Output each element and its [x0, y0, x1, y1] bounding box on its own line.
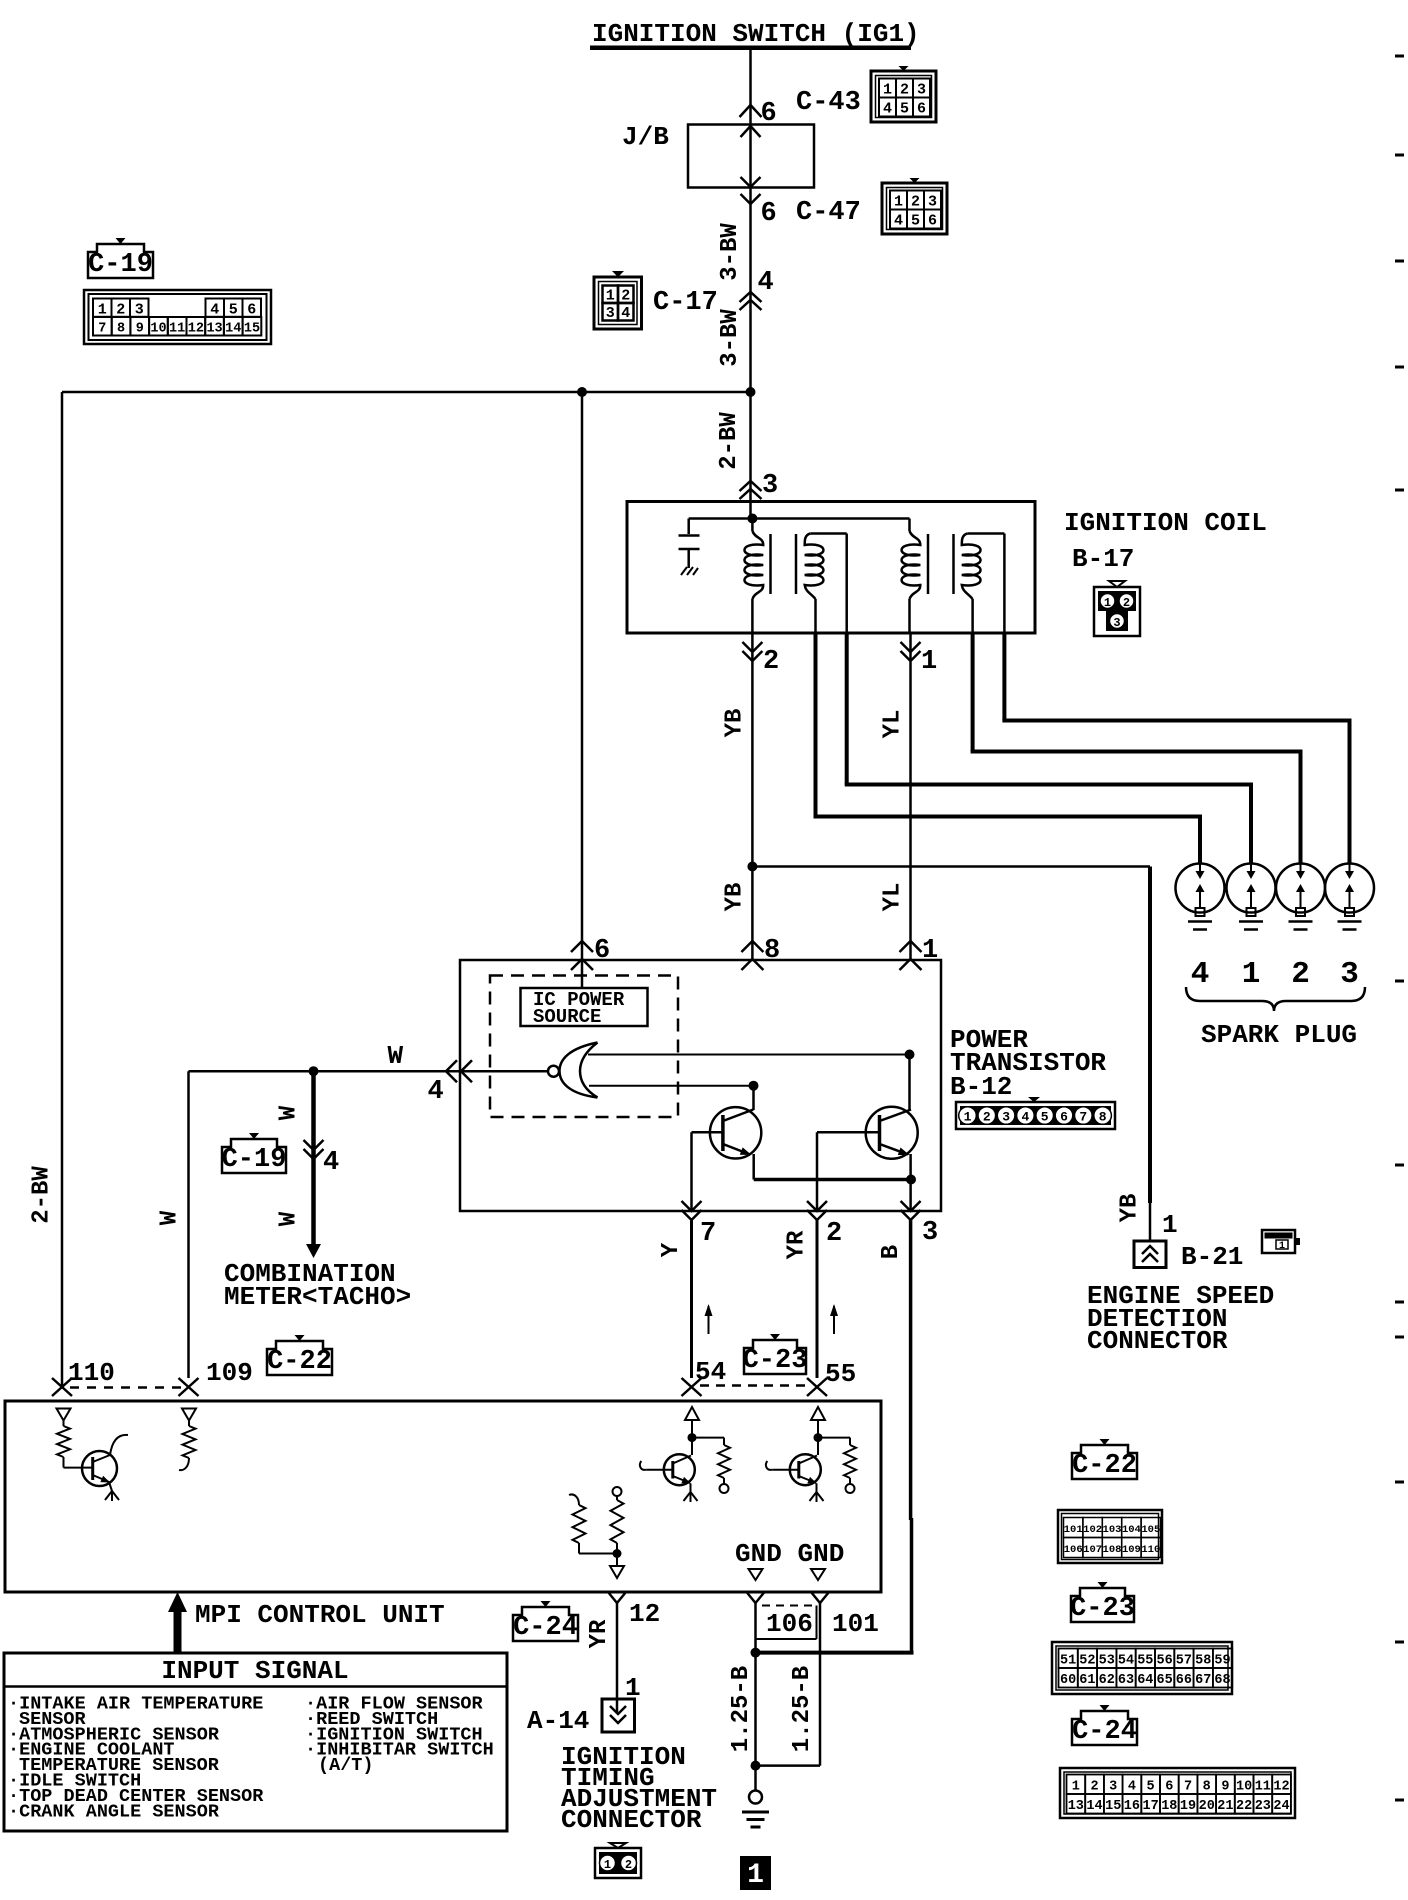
svg-text:5: 5 [229, 302, 238, 319]
svg-text:C-23: C-23 [743, 1346, 808, 1376]
svg-text:53: 53 [1099, 1654, 1115, 1669]
svg-text:14: 14 [1086, 1799, 1102, 1814]
svg-text:105: 105 [1141, 1524, 1160, 1536]
svg-text:52: 52 [1079, 1654, 1095, 1669]
svg-text:4: 4 [210, 302, 219, 319]
svg-text:C-47: C-47 [796, 198, 861, 228]
svg-text:W: W [388, 1041, 404, 1071]
svg-text:1: 1 [1162, 1210, 1178, 1240]
svg-text:7: 7 [1184, 1780, 1192, 1795]
svg-text:6: 6 [1060, 1110, 1068, 1125]
svg-text:62: 62 [1099, 1673, 1115, 1688]
svg-text:2: 2 [625, 1858, 632, 1872]
svg-text:3-BW: 3-BW [717, 309, 744, 367]
svg-text:1: 1 [883, 82, 892, 99]
svg-text:4: 4 [323, 1148, 339, 1178]
svg-text:1: 1 [98, 302, 107, 319]
svg-text:2: 2 [116, 302, 125, 319]
svg-text:6: 6 [917, 101, 926, 118]
svg-text:106: 106 [766, 1609, 813, 1639]
svg-text:C-23: C-23 [1070, 1594, 1135, 1624]
svg-text:109: 109 [1122, 1544, 1141, 1556]
svg-text:103: 103 [1103, 1524, 1122, 1536]
svg-text:64: 64 [1137, 1673, 1153, 1688]
svg-text:1: 1 [1072, 1780, 1080, 1795]
svg-text:MPI CONTROL UNIT: MPI CONTROL UNIT [195, 1600, 445, 1630]
svg-text:8: 8 [1203, 1780, 1211, 1795]
svg-text:61: 61 [1079, 1673, 1095, 1688]
svg-text:66: 66 [1176, 1673, 1192, 1688]
svg-text:23: 23 [1255, 1799, 1271, 1814]
svg-text:6: 6 [928, 213, 937, 230]
svg-text:15: 15 [244, 322, 260, 337]
svg-text:10: 10 [150, 322, 166, 337]
svg-text:3: 3 [917, 82, 926, 99]
svg-text:1: 1 [1104, 596, 1111, 610]
svg-text:7: 7 [98, 322, 106, 337]
svg-text:63: 63 [1118, 1673, 1134, 1688]
svg-text:6: 6 [247, 302, 256, 319]
svg-text:INPUT SIGNAL: INPUT SIGNAL [161, 1656, 348, 1686]
svg-text:55: 55 [1137, 1654, 1153, 1669]
svg-text:1: 1 [604, 1858, 611, 1872]
svg-text:1.25-B: 1.25-B [728, 1666, 755, 1752]
svg-text:B-17: B-17 [1072, 544, 1134, 574]
svg-text:11: 11 [169, 322, 185, 337]
svg-text:5: 5 [911, 213, 920, 230]
svg-text:4: 4 [883, 101, 892, 118]
svg-text:2: 2 [763, 647, 779, 677]
svg-text:C-22: C-22 [1072, 1451, 1137, 1481]
svg-text:METER<TACHO>: METER<TACHO> [224, 1282, 411, 1312]
svg-text:58: 58 [1195, 1654, 1211, 1669]
svg-text:C-19: C-19 [222, 1145, 287, 1175]
svg-text:Y: Y [658, 1242, 685, 1257]
svg-text:15: 15 [1105, 1799, 1121, 1814]
svg-text:109: 109 [206, 1358, 253, 1388]
svg-text:SPARK PLUG: SPARK PLUG [1201, 1020, 1357, 1050]
svg-text:W: W [276, 1105, 303, 1120]
svg-text:6: 6 [594, 936, 610, 966]
svg-text:110: 110 [1141, 1544, 1160, 1556]
svg-text:4: 4 [1191, 957, 1210, 992]
svg-text:3: 3 [1109, 1780, 1117, 1795]
svg-text:3: 3 [1340, 957, 1359, 992]
svg-text:4: 4 [1128, 1780, 1136, 1795]
svg-text:YL: YL [880, 710, 907, 739]
svg-text:B-12: B-12 [950, 1072, 1012, 1102]
svg-text:GND: GND [798, 1539, 845, 1569]
svg-text:6: 6 [1165, 1780, 1173, 1795]
svg-text:68: 68 [1214, 1673, 1230, 1688]
svg-text:YR: YR [784, 1230, 811, 1259]
svg-text:6: 6 [761, 199, 777, 229]
svg-text:C-19: C-19 [88, 250, 153, 280]
svg-text:55: 55 [825, 1359, 856, 1389]
svg-text:108: 108 [1103, 1544, 1122, 1556]
svg-text:17: 17 [1142, 1799, 1158, 1814]
svg-text:8: 8 [764, 936, 780, 966]
svg-text:21: 21 [1217, 1799, 1233, 1814]
svg-text:59: 59 [1214, 1654, 1230, 1669]
svg-text:C-17: C-17 [653, 288, 718, 318]
svg-text:2: 2 [900, 82, 909, 99]
svg-text:3: 3 [928, 194, 937, 211]
svg-text:56: 56 [1156, 1654, 1172, 1669]
svg-text:104: 104 [1122, 1524, 1141, 1536]
svg-text:1: 1 [964, 1110, 972, 1125]
svg-text:65: 65 [1156, 1673, 1172, 1688]
svg-text:IGNITION COIL: IGNITION COIL [1064, 508, 1267, 538]
svg-text:2-BW: 2-BW [29, 1166, 56, 1224]
svg-text:CONNECTOR: CONNECTOR [561, 1805, 702, 1835]
svg-text:1: 1 [921, 647, 937, 677]
svg-text:8: 8 [117, 322, 125, 337]
svg-text:IGNITION SWITCH (IG1): IGNITION SWITCH (IG1) [592, 19, 920, 49]
svg-text:8: 8 [1099, 1110, 1107, 1125]
svg-text:12: 12 [188, 322, 204, 337]
svg-text:54: 54 [695, 1357, 726, 1387]
svg-text:12: 12 [629, 1599, 660, 1629]
svg-text:3: 3 [135, 302, 144, 319]
svg-text:9: 9 [136, 322, 144, 337]
svg-text:10: 10 [1236, 1780, 1252, 1795]
svg-text:SOURCE: SOURCE [533, 1006, 601, 1028]
svg-text:YB: YB [722, 883, 749, 912]
svg-text:5: 5 [1147, 1780, 1155, 1795]
svg-text:106: 106 [1064, 1544, 1083, 1556]
svg-text:101: 101 [1064, 1524, 1083, 1536]
svg-text:13: 13 [206, 322, 222, 337]
svg-text:2: 2 [826, 1219, 842, 1249]
svg-text:3: 3 [606, 305, 615, 322]
svg-text:107: 107 [1083, 1544, 1102, 1556]
svg-text:2: 2 [983, 1110, 991, 1125]
svg-text:CONNECTOR: CONNECTOR [1087, 1326, 1228, 1356]
svg-text:4: 4 [1021, 1110, 1029, 1125]
svg-text:2: 2 [1123, 596, 1130, 610]
svg-text:102: 102 [1083, 1524, 1102, 1536]
svg-text:18: 18 [1161, 1799, 1177, 1814]
svg-text:J/B: J/B [622, 122, 669, 152]
svg-text:C-24: C-24 [513, 1613, 578, 1643]
svg-text:YL: YL [880, 883, 907, 912]
svg-text:4: 4 [621, 305, 630, 322]
svg-text:67: 67 [1195, 1673, 1211, 1688]
svg-text:14: 14 [225, 322, 241, 337]
svg-text:C-22: C-22 [267, 1347, 332, 1377]
svg-text:4: 4 [758, 268, 774, 298]
svg-text:(A/T): (A/T) [318, 1755, 374, 1776]
svg-text:1: 1 [894, 194, 903, 211]
svg-text:13: 13 [1068, 1799, 1084, 1814]
svg-text:C-24: C-24 [1072, 1717, 1137, 1747]
svg-text:YB: YB [722, 709, 749, 738]
svg-text:51: 51 [1060, 1654, 1076, 1669]
svg-text:3: 3 [762, 471, 778, 501]
svg-text:20: 20 [1199, 1799, 1215, 1814]
svg-text:3: 3 [1002, 1110, 1010, 1125]
svg-text:22: 22 [1236, 1799, 1252, 1814]
svg-text:1: 1 [922, 936, 938, 966]
svg-text:C-43: C-43 [796, 88, 861, 118]
svg-text:A-14: A-14 [527, 1706, 589, 1736]
svg-text:9: 9 [1221, 1780, 1229, 1795]
svg-text:2: 2 [911, 194, 920, 211]
svg-text:2: 2 [1291, 957, 1310, 992]
svg-text:W: W [276, 1211, 303, 1226]
svg-text:3: 3 [1113, 616, 1120, 630]
svg-text:GND: GND [735, 1539, 782, 1569]
svg-text:7: 7 [1079, 1110, 1087, 1125]
svg-text:16: 16 [1124, 1799, 1140, 1814]
svg-text:4: 4 [894, 213, 903, 230]
svg-text:3: 3 [922, 1218, 938, 1248]
svg-text:60: 60 [1060, 1673, 1076, 1688]
svg-text:2: 2 [1090, 1780, 1098, 1795]
svg-text:54: 54 [1118, 1654, 1134, 1669]
svg-text:B: B [878, 1245, 905, 1259]
svg-text:YR: YR [586, 1619, 613, 1648]
svg-text:11: 11 [1255, 1780, 1271, 1795]
svg-text:5: 5 [1041, 1110, 1049, 1125]
svg-text:W: W [157, 1210, 184, 1225]
svg-text:1.25-B: 1.25-B [789, 1666, 816, 1752]
svg-text:4: 4 [428, 1077, 444, 1107]
svg-text:19: 19 [1180, 1799, 1196, 1814]
svg-text:1: 1 [747, 1860, 764, 1891]
svg-text:57: 57 [1176, 1654, 1192, 1669]
svg-text:2-BW: 2-BW [716, 412, 743, 470]
svg-text:1: 1 [1242, 957, 1261, 992]
svg-text:1: 1 [1279, 1241, 1285, 1252]
svg-text:B-21: B-21 [1181, 1242, 1243, 1272]
svg-text:24: 24 [1273, 1799, 1289, 1814]
svg-text:·CRANK ANGLE SENSOR: ·CRANK ANGLE SENSOR [8, 1801, 220, 1822]
svg-text:7: 7 [700, 1219, 716, 1249]
svg-text:110: 110 [68, 1358, 115, 1388]
svg-text:YB: YB [1117, 1194, 1144, 1223]
svg-text:12: 12 [1273, 1780, 1289, 1795]
svg-text:101: 101 [832, 1609, 879, 1639]
svg-text:3-BW: 3-BW [717, 223, 744, 281]
svg-text:5: 5 [900, 101, 909, 118]
